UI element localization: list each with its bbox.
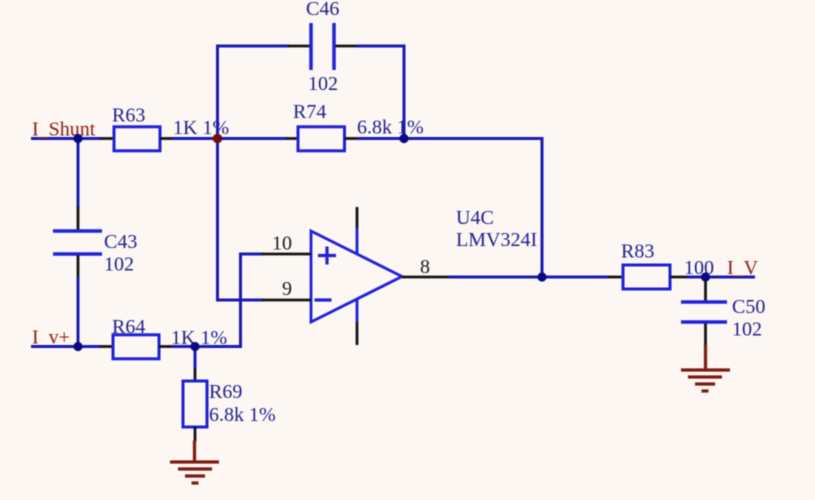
wire feedback drop to output	[541, 137, 544, 279]
ground symbol below R69	[170, 441, 219, 484]
junction at I_V / C50 tap	[701, 272, 710, 281]
svg-text:LMV324I: LMV324I	[456, 229, 537, 251]
svg-text:U4C: U4C	[456, 207, 494, 229]
junction node A (dark red)	[213, 134, 223, 144]
resistor R74	[286, 127, 357, 151]
junction node B	[399, 134, 408, 143]
wire output node to R83	[542, 276, 609, 279]
capacitor C46	[288, 23, 357, 70]
svg-text:R69: R69	[209, 381, 242, 403]
wire node A riser up to C46 loop	[216, 45, 219, 139]
wire I_v+ rail left	[31, 345, 101, 348]
wire C43 upper branch	[77, 139, 80, 209]
op-amp U4C	[262, 207, 450, 345]
svg-text:9: 9	[282, 278, 292, 300]
svg-text:R63: R63	[112, 105, 145, 127]
svg-text:102: 102	[732, 319, 762, 341]
svg-text:I_Shunt: I_Shunt	[32, 119, 96, 141]
svg-text:102: 102	[104, 254, 134, 276]
ground symbol below C50	[681, 345, 730, 391]
wire C43 lower branch	[77, 277, 80, 347]
junction node C	[190, 342, 199, 351]
svg-text:102: 102	[308, 73, 338, 95]
wire output to feedback corner	[449, 276, 542, 279]
junction at I_v+ / C43 tap	[73, 342, 82, 351]
resistor R64	[100, 335, 172, 359]
svg-text:10: 10	[272, 233, 292, 255]
wire non-inverting input horizontal	[239, 253, 263, 256]
svg-text:8: 8	[420, 256, 430, 278]
wire C46 right drop to node B	[403, 45, 406, 139]
svg-text:R83: R83	[621, 241, 654, 263]
svg-text:C50: C50	[732, 296, 765, 318]
wire I_Shunt rail left	[31, 137, 101, 140]
wire node B segment R74 to feedback corner	[357, 137, 544, 140]
svg-text:6.8k 1%: 6.8k 1%	[357, 117, 424, 139]
svg-text:6.8k 1%: 6.8k 1%	[209, 404, 276, 426]
wire node C segment R64 to riser	[172, 345, 242, 348]
svg-text:R74: R74	[293, 101, 326, 123]
capacitor C43	[53, 207, 102, 278]
wire C46 top rail left	[216, 45, 289, 48]
capacitor C50	[681, 277, 727, 346]
wire R83 to I_V	[687, 276, 755, 279]
resistor R83	[608, 265, 687, 289]
wire C46 top rail right	[356, 45, 406, 48]
resistor R63	[100, 127, 172, 151]
junction output node	[537, 272, 546, 281]
wire inverting input horizontal	[216, 299, 263, 302]
resistor R69	[183, 347, 207, 442]
wire node A drop to inverting input	[216, 139, 219, 302]
junction at I_Shunt / C43 tap	[73, 134, 82, 143]
svg-text:C46: C46	[306, 0, 339, 20]
svg-text:C43: C43	[104, 231, 137, 253]
wire node A segment R63 to R74	[172, 137, 287, 140]
svg-text:I_V: I_V	[727, 257, 759, 279]
wire riser to non-inverting input	[239, 253, 242, 349]
svg-text:R64: R64	[112, 316, 145, 338]
